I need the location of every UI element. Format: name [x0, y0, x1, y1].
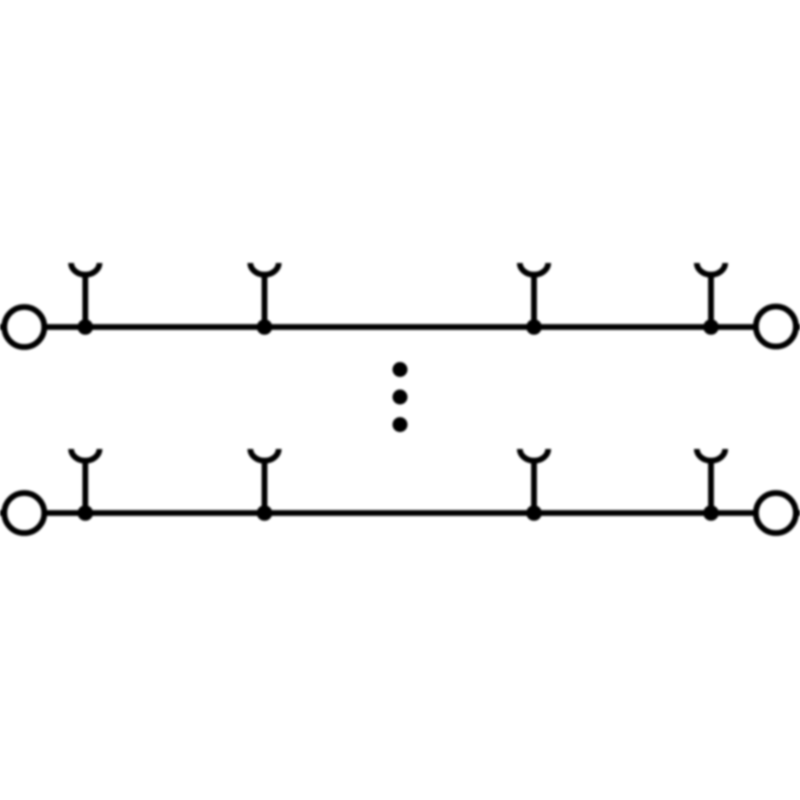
clamp contact 4 (top rail, fork symbol) [697, 263, 725, 327]
clamp contact 8 (bottom rail, fork symbol) [697, 449, 725, 513]
clamp contact 3 (top rail, fork symbol) [520, 263, 548, 327]
clamp contact 1 (top rail, fork symbol) [71, 263, 99, 327]
clamp contact 2 (top rail, fork symbol) [250, 263, 278, 327]
junction dot bottom rail 4 [703, 505, 719, 521]
terminal circle top-left [4, 307, 44, 347]
junction dot bottom rail 1 [78, 505, 94, 521]
terminal circle top-right [756, 307, 796, 347]
terminal circle bottom-left [4, 493, 44, 533]
junction dot bottom rail 3 [526, 505, 542, 521]
junction dot top rail 1 [78, 319, 94, 335]
wire bottom bus rail [0, 510, 800, 516]
junction dot top rail 2 [257, 319, 273, 335]
continuation dot 2 [393, 390, 408, 405]
wire top bus rail [0, 324, 800, 330]
junction dot bottom rail 2 [257, 505, 273, 521]
junction dot top rail 4 [703, 319, 719, 335]
clamp contact 7 (bottom rail, fork symbol) [520, 449, 548, 513]
terminal circle bottom-right [756, 493, 796, 533]
junction dot top rail 3 [526, 319, 542, 335]
clamp contact 5 (bottom rail, fork symbol) [71, 449, 99, 513]
continuation dot 1 [393, 362, 408, 377]
clamp contact 6 (bottom rail, fork symbol) [250, 449, 278, 513]
continuation dot 3 [393, 417, 408, 432]
